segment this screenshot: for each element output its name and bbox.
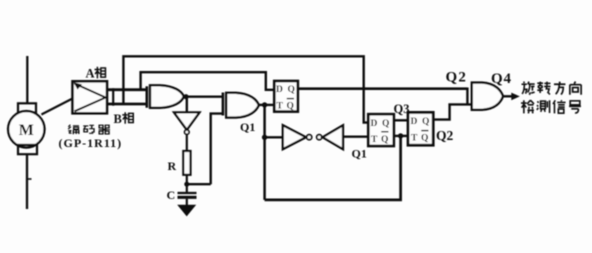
node at G1 output xyxy=(183,94,188,99)
feedback line 1 (B phase to Q3 D) xyxy=(123,56,369,122)
gate1 input cap bar xyxy=(146,86,149,107)
gate Q4 input cap bar xyxy=(466,88,468,104)
gate Q1 input cap bar xyxy=(222,93,225,116)
node bowtie tap xyxy=(262,135,267,140)
svg-text:Q: Q xyxy=(422,117,429,127)
inverter U2 xyxy=(174,112,200,129)
right inverter bubble xyxy=(317,135,322,140)
wire branch down from Q1 output xyxy=(263,105,266,200)
capacitor C plate 2 xyxy=(178,196,197,199)
svg-text:Q: Q xyxy=(287,102,294,112)
motor top brush terminal xyxy=(18,103,36,112)
wire Q4 output xyxy=(503,95,512,97)
svg-text:D: D xyxy=(371,119,378,129)
svg-text:T: T xyxy=(371,135,378,145)
wire R to RC node xyxy=(186,175,188,192)
B phase bus wire xyxy=(107,103,146,106)
ground arrow xyxy=(177,205,196,217)
ground stem xyxy=(186,199,188,206)
wire bowtie input xyxy=(265,136,283,138)
wire G1 output down to inverter xyxy=(186,97,188,113)
svg-text:(GP-1R11): (GP-1R11) xyxy=(59,136,123,150)
svg-text:Q1: Q1 xyxy=(240,120,255,134)
svg-text:A: A xyxy=(86,67,95,81)
svg-text:Q: Q xyxy=(381,135,388,145)
label encoder 编码器 xyxy=(68,125,79,135)
flip-flop Q3 box xyxy=(368,114,394,146)
capacitor C plate 1 xyxy=(178,192,197,194)
wire RC node to delay vertical xyxy=(187,183,211,185)
node at Q3/Q2 T line xyxy=(398,133,403,138)
feedback line 2 (A phase to FF D) xyxy=(141,72,275,90)
motor M body xyxy=(8,111,44,147)
encoder box xyxy=(73,81,108,113)
svg-text:Q: Q xyxy=(421,134,428,144)
svg-text:C: C xyxy=(167,188,176,202)
motor top supply wire xyxy=(26,56,28,103)
AND gate Q4 xyxy=(472,83,503,110)
wire Q3 Qbar to Q2 T xyxy=(394,135,408,137)
AND gate Q1 xyxy=(226,93,259,118)
node RC junction xyxy=(184,182,189,187)
output label line 1: 旋转方向 xyxy=(522,82,535,95)
wire Q2 Q output up to gate Q4 xyxy=(433,104,471,119)
svg-text:Q1: Q1 xyxy=(352,147,367,161)
node at Q1 output branch xyxy=(262,102,267,107)
resistor R xyxy=(183,151,190,175)
encoder light path diagonals xyxy=(75,84,106,112)
svg-text:Q2: Q2 xyxy=(436,128,454,143)
inverter bubble xyxy=(185,130,189,134)
flip-flop FF1 box xyxy=(274,81,298,112)
svg-text:Q4: Q4 xyxy=(491,71,512,87)
svg-text:D: D xyxy=(411,117,418,127)
motor bottom wire xyxy=(26,154,28,209)
wire delay vertical up to Q1 gate input xyxy=(211,114,222,185)
svg-text:B: B xyxy=(114,112,122,126)
bus tick bar xyxy=(112,88,114,105)
svg-text:Q3: Q3 xyxy=(394,102,410,116)
wire Q1 output to FF1 T input xyxy=(259,104,275,106)
output label line 2: 检测信号 xyxy=(521,100,534,113)
motor bottom brush terminal xyxy=(18,145,37,154)
AND gate G1 xyxy=(150,85,184,108)
flip-flop Q2 box xyxy=(408,112,433,145)
svg-text:D: D xyxy=(276,85,283,95)
output arrowhead xyxy=(511,93,520,101)
encoder arrowhead xyxy=(74,82,83,89)
svg-text:Q: Q xyxy=(288,85,295,95)
wire G1 output to Q1 gate xyxy=(184,95,222,97)
wire bubble to R xyxy=(186,134,188,151)
left inverter bubble xyxy=(307,135,312,140)
wire bowtie output to Q3 T input xyxy=(343,136,369,138)
wire FF1 Q output to gate Q4 xyxy=(298,87,468,90)
svg-text:M: M xyxy=(19,122,34,139)
svg-text:T: T xyxy=(277,102,284,112)
inverter pair left triangle xyxy=(283,125,306,149)
wire Q3 Q to Q2 D xyxy=(394,119,408,121)
tick on motor bottom wire xyxy=(27,178,32,180)
shaft wire motor to encoder xyxy=(41,99,72,115)
inverter pair right triangle xyxy=(323,125,343,149)
svg-text:R: R xyxy=(168,159,177,173)
svg-text:T: T xyxy=(411,134,418,144)
svg-text:Q2: Q2 xyxy=(446,70,468,86)
A phase bus wire xyxy=(107,88,146,91)
svg-text:Q: Q xyxy=(382,119,389,129)
bottom loop wire xyxy=(265,136,401,200)
